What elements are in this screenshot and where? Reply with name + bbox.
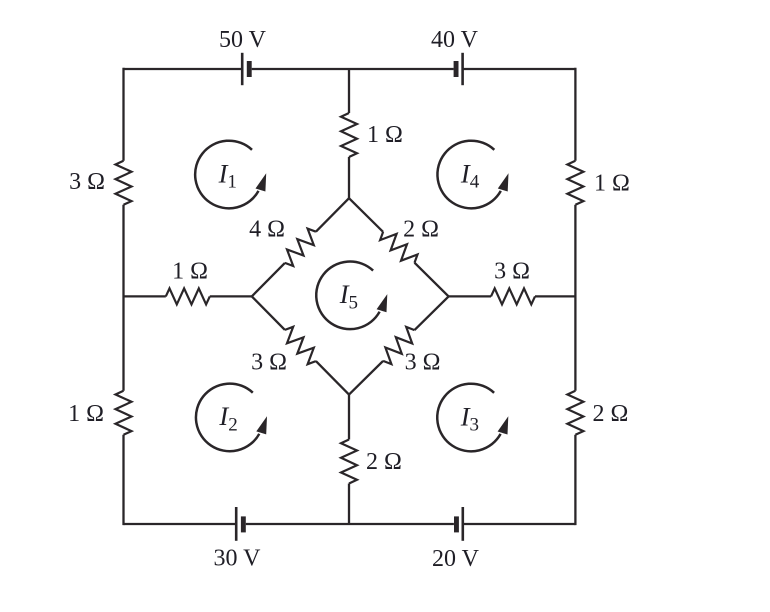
wire resistor to right side xyxy=(535,295,575,297)
svg-text:1 Ω: 1 Ω xyxy=(594,171,630,197)
wire resistor to diamond left node xyxy=(210,295,252,297)
wire diamond left node to 3ohm lower-left xyxy=(252,296,285,330)
svg-text:1 Ω: 1 Ω xyxy=(172,259,208,285)
mesh current loop I3 xyxy=(437,384,508,452)
battery 50 V xyxy=(242,53,252,85)
wire 3ohm to diamond right node xyxy=(415,296,449,330)
svg-text:3 Ω: 3 Ω xyxy=(494,259,530,285)
resistor 2ohm bottom-middle xyxy=(341,440,357,484)
svg-text:2 Ω: 2 Ω xyxy=(366,449,402,475)
wire right side (top part) xyxy=(574,68,576,161)
mesh current loop I2 xyxy=(196,384,267,452)
wire bottom-left segment xyxy=(124,523,236,525)
battery 20 V xyxy=(454,507,463,541)
resistor 1ohm right xyxy=(567,161,583,205)
wire 4ohm to diamond top node xyxy=(316,198,349,232)
svg-text:3 Ω: 3 Ω xyxy=(405,350,441,376)
wire left side (bottom part) xyxy=(122,435,124,525)
svg-text:30 V: 30 V xyxy=(214,546,262,572)
resistor 3ohm diamond lower-left xyxy=(285,327,316,364)
mesh current loop I4 xyxy=(437,141,508,209)
wire top-center down to resistor xyxy=(348,69,350,113)
wire resistor to diamond top node xyxy=(348,157,350,198)
wire top-right segment xyxy=(463,68,576,70)
resistor 3ohm diamond lower-right xyxy=(383,327,414,364)
wire right side (bottom part) xyxy=(574,435,576,525)
svg-text:1 Ω: 1 Ω xyxy=(367,122,403,148)
wire diamond bottom node to 3ohm lower-right xyxy=(349,361,383,395)
svg-text:2 Ω: 2 Ω xyxy=(593,401,629,427)
svg-text:4 Ω: 4 Ω xyxy=(249,216,285,242)
resistor 3ohm left xyxy=(116,161,132,205)
resistor 1ohm middle-left xyxy=(166,288,210,304)
svg-text:3 Ω: 3 Ω xyxy=(251,350,287,376)
svg-text:1 Ω: 1 Ω xyxy=(68,401,104,427)
svg-text:40 V: 40 V xyxy=(431,27,479,53)
svg-text:3 Ω: 3 Ω xyxy=(69,169,105,195)
battery 40 V xyxy=(454,53,463,85)
wire 3ohm to diamond bottom node xyxy=(316,361,349,395)
resistor 2ohm diamond upper-right xyxy=(380,232,417,263)
svg-text:20 V: 20 V xyxy=(432,546,480,572)
resistor 3ohm middle-right xyxy=(491,288,535,304)
mesh current loop I5 xyxy=(316,262,387,330)
wire left side to 1ohm resistor xyxy=(124,295,166,297)
wire 2ohm to diamond right node xyxy=(415,263,449,297)
resistor 1ohm top-middle xyxy=(341,113,357,157)
resistor 4ohm diamond upper-left xyxy=(285,229,316,266)
wire bottom-middle segment xyxy=(246,523,454,525)
wire resistor to bottom wire xyxy=(348,484,350,525)
svg-text:2 Ω: 2 Ω xyxy=(403,216,439,242)
wire top-middle segment xyxy=(252,68,454,70)
wire diamond bottom node down to resistor xyxy=(348,395,350,440)
wire bottom-right segment xyxy=(463,523,576,525)
wire top-left segment xyxy=(124,68,242,70)
wire left side (top part) xyxy=(122,68,124,161)
wire diamond right node to 3ohm resistor xyxy=(449,295,491,297)
wire left side (middle part) xyxy=(122,205,124,391)
battery 30 V xyxy=(236,507,246,541)
svg-text:50 V: 50 V xyxy=(219,27,267,53)
resistor 2ohm right-bottom xyxy=(567,391,583,435)
wire diamond top node to 2ohm xyxy=(349,198,383,232)
wire right side (middle part) xyxy=(574,205,576,391)
resistor 1ohm left-bottom xyxy=(116,391,132,435)
wire diamond left node to 4ohm xyxy=(252,263,285,297)
mesh current loop I1 xyxy=(195,141,266,209)
